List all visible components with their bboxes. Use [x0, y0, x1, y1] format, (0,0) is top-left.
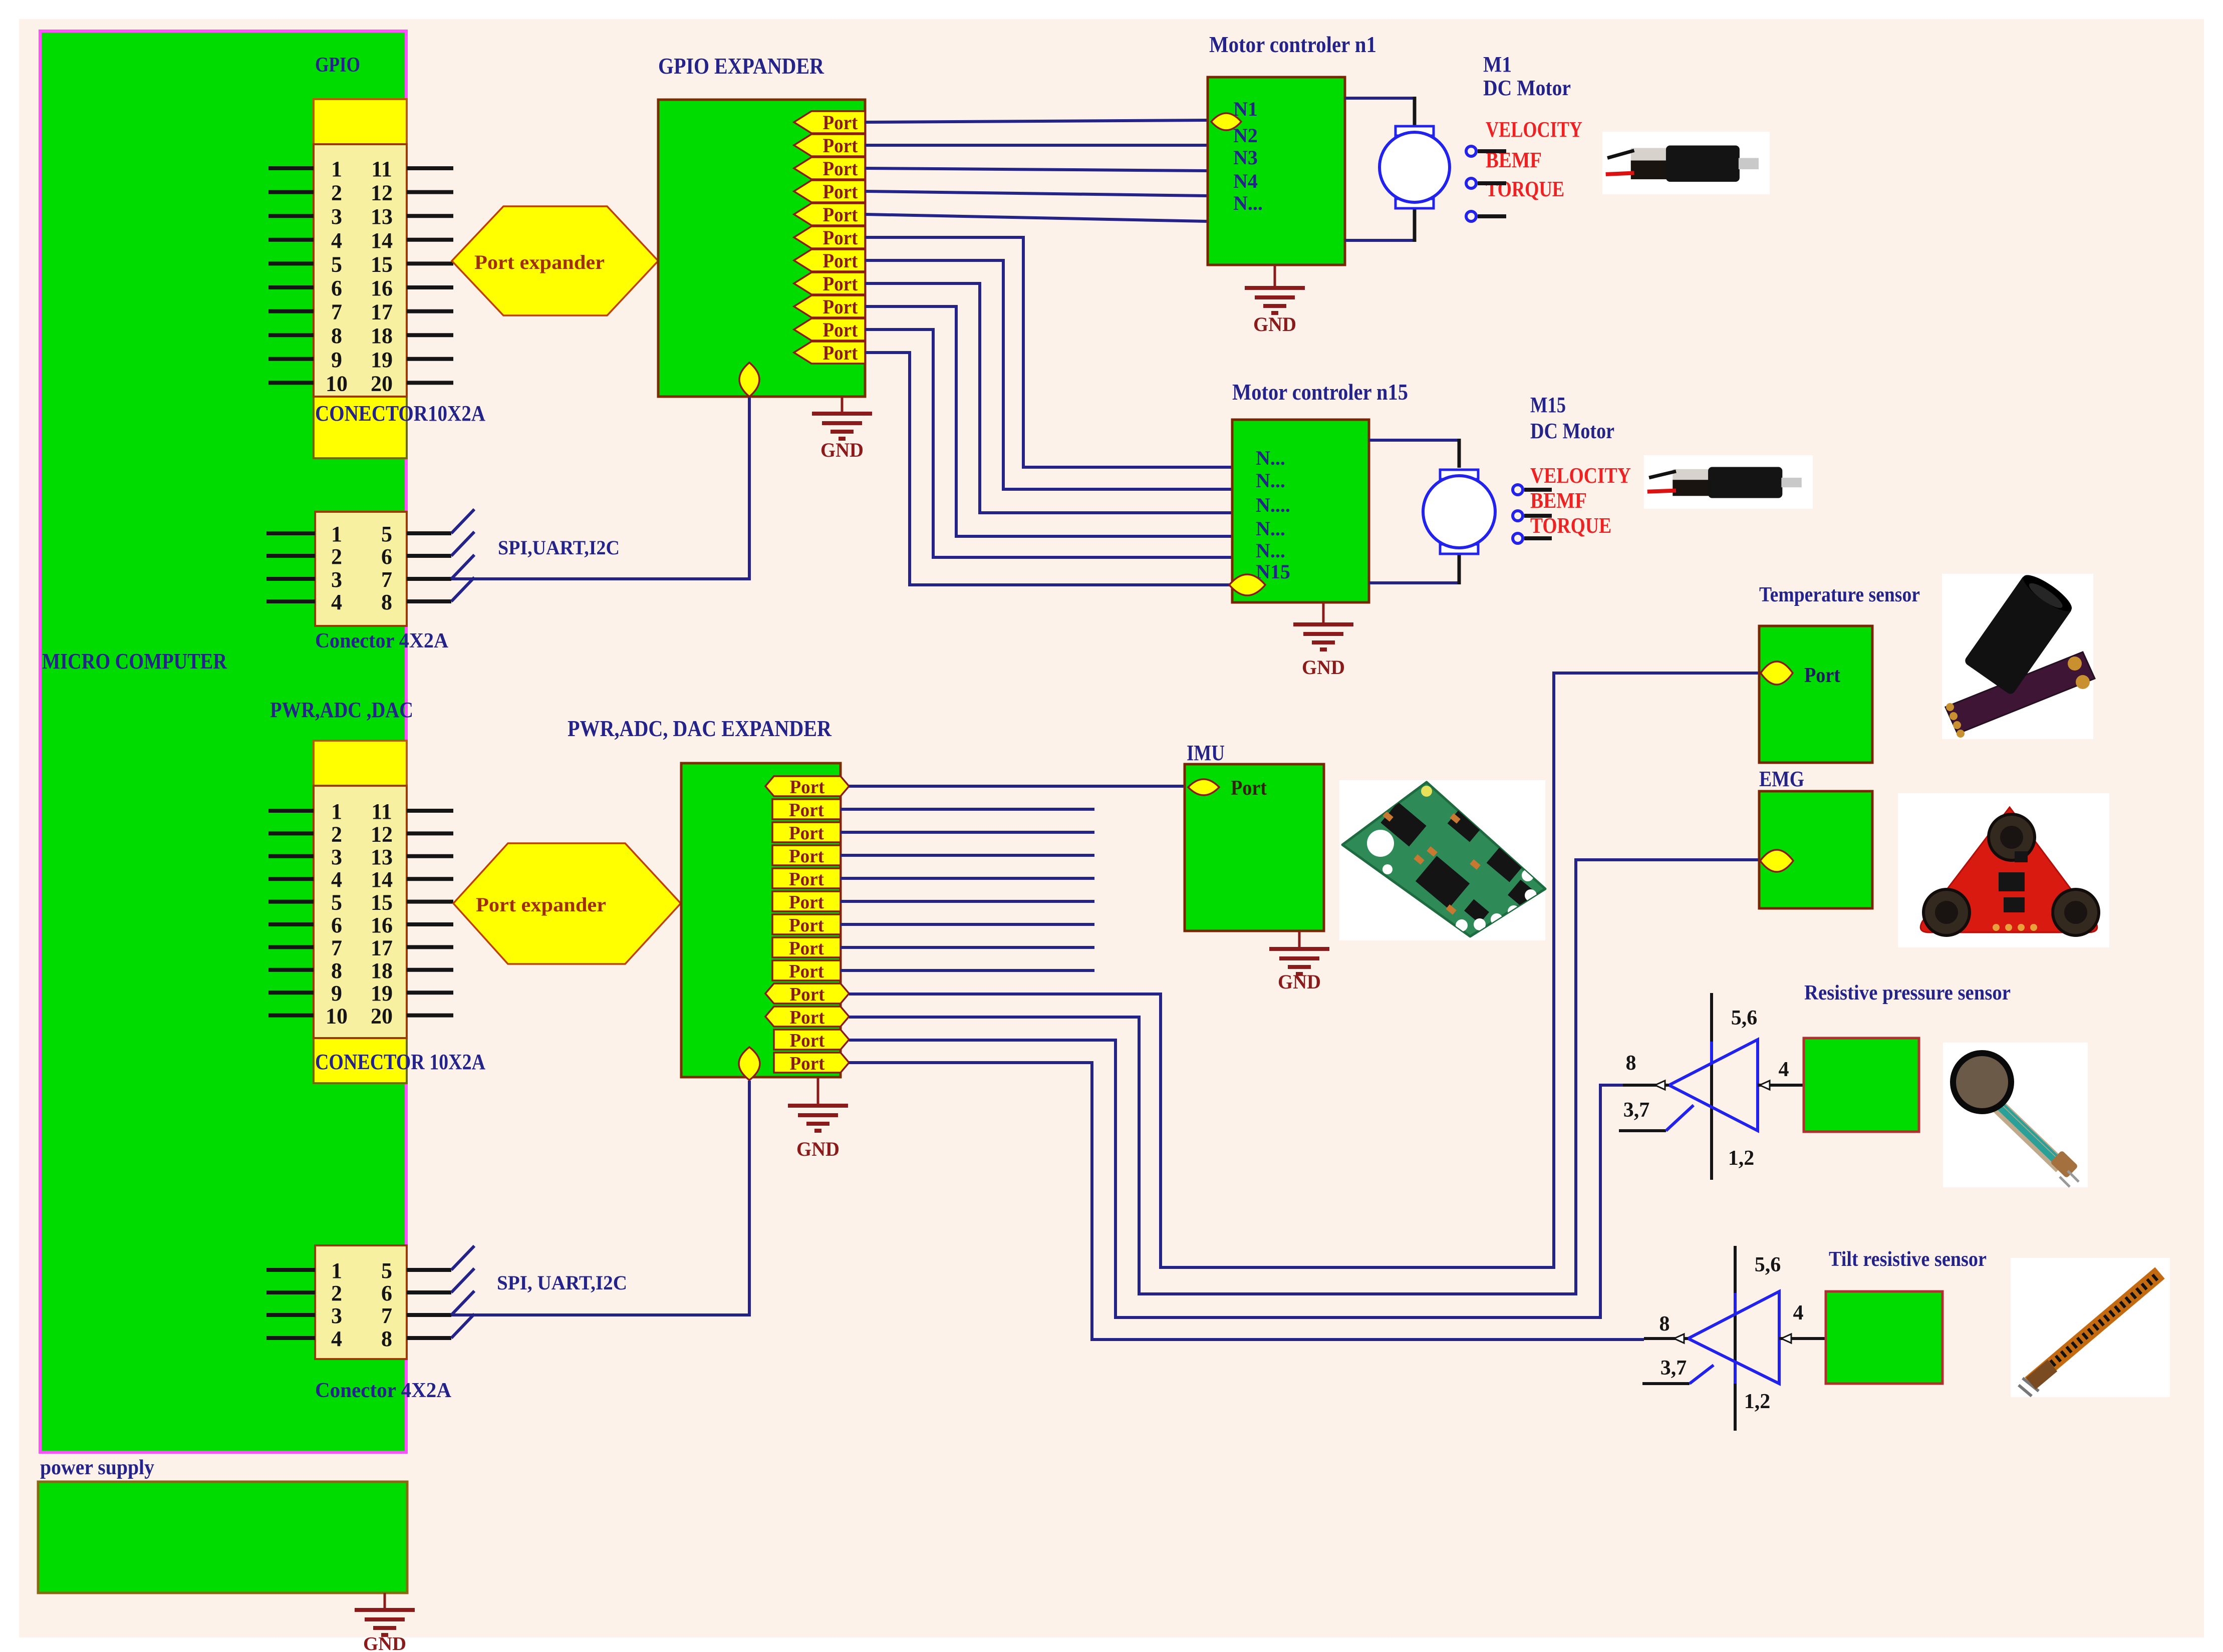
svg-text:1: 1: [331, 799, 342, 824]
svg-text:M15: M15: [1530, 393, 1566, 417]
svg-text:2: 2: [331, 1281, 342, 1305]
svg-text:8: 8: [331, 323, 342, 348]
svg-text:Port: Port: [1231, 777, 1267, 800]
svg-text:Resistive pressure sensor: Resistive pressure sensor: [1804, 981, 2011, 1005]
svg-text:7: 7: [381, 1303, 392, 1328]
svg-text:5,6: 5,6: [1755, 1253, 1781, 1276]
svg-text:Port: Port: [789, 938, 824, 959]
svg-text:N3: N3: [1233, 146, 1258, 169]
svg-text:3: 3: [331, 204, 342, 229]
svg-text:15: 15: [371, 890, 393, 915]
svg-text:Conector 4X2A: Conector 4X2A: [315, 629, 449, 652]
svg-text:1,2: 1,2: [1744, 1390, 1771, 1413]
svg-text:16: 16: [371, 276, 393, 300]
svg-text:N...: N...: [1256, 539, 1285, 562]
svg-text:DC Motor: DC Motor: [1530, 419, 1614, 443]
svg-text:PWR,ADC ,DAC: PWR,ADC ,DAC: [270, 698, 413, 722]
svg-text:PWR,ADC, DAC EXPANDER: PWR,ADC, DAC EXPANDER: [568, 716, 832, 741]
svg-text:13: 13: [371, 845, 393, 869]
svg-text:Tilt resistive sensor: Tilt resistive sensor: [1829, 1248, 1987, 1271]
svg-text:6: 6: [381, 544, 392, 569]
svg-text:4: 4: [331, 1327, 342, 1351]
svg-text:13: 13: [371, 204, 393, 229]
svg-text:10: 10: [326, 371, 348, 396]
svg-text:Port: Port: [823, 295, 859, 318]
svg-text:BEMF: BEMF: [1530, 488, 1587, 513]
svg-text:17: 17: [371, 935, 393, 960]
svg-text:Port: Port: [789, 800, 824, 821]
svg-text:GND: GND: [820, 439, 864, 461]
svg-text:Port: Port: [789, 846, 824, 867]
svg-text:GND: GND: [1302, 656, 1345, 679]
svg-text:N...: N...: [1233, 192, 1263, 214]
svg-text:Motor controler n1: Motor controler n1: [1209, 32, 1376, 57]
svg-text:2: 2: [331, 181, 342, 205]
svg-text:Motor controler n15: Motor controler n15: [1232, 379, 1408, 405]
svg-text:power supply: power supply: [40, 1456, 154, 1479]
svg-text:Port: Port: [823, 157, 859, 180]
svg-text:Port: Port: [823, 226, 859, 249]
svg-text:15: 15: [371, 252, 393, 276]
svg-text:10: 10: [326, 1004, 348, 1029]
svg-text:8: 8: [331, 958, 342, 983]
svg-text:7: 7: [331, 935, 342, 960]
svg-text:GND: GND: [1253, 313, 1296, 336]
svg-text:6: 6: [331, 276, 342, 300]
svg-text:4: 4: [331, 228, 342, 253]
svg-text:2: 2: [331, 822, 342, 846]
svg-text:3,7: 3,7: [1623, 1099, 1650, 1122]
svg-text:Port: Port: [823, 342, 859, 364]
svg-text:7: 7: [381, 567, 392, 592]
svg-text:9: 9: [331, 981, 342, 1006]
svg-text:Port: Port: [823, 203, 859, 226]
svg-text:1: 1: [331, 522, 342, 546]
svg-text:N...: N...: [1256, 447, 1285, 469]
svg-text:Port expander: Port expander: [476, 893, 606, 916]
svg-text:4: 4: [331, 867, 342, 892]
svg-text:Temperature sensor: Temperature sensor: [1759, 583, 1920, 606]
svg-text:Port: Port: [789, 823, 824, 844]
svg-text:Port: Port: [790, 1053, 825, 1074]
svg-text:Port: Port: [1804, 664, 1840, 687]
svg-text:TORQUE: TORQUE: [1486, 177, 1564, 201]
svg-text:11: 11: [371, 799, 392, 824]
svg-text:12: 12: [371, 181, 393, 205]
svg-text:4: 4: [331, 590, 342, 614]
svg-text:Port: Port: [789, 892, 824, 913]
svg-text:GND: GND: [796, 1138, 840, 1160]
svg-text:14: 14: [371, 228, 393, 253]
svg-text:20: 20: [371, 1004, 393, 1029]
svg-text:9: 9: [331, 348, 342, 372]
svg-text:8: 8: [1659, 1312, 1670, 1336]
svg-text:8: 8: [381, 590, 392, 614]
svg-text:N....: N....: [1256, 494, 1290, 516]
svg-text:Port: Port: [789, 915, 824, 936]
svg-text:EMG: EMG: [1759, 767, 1804, 791]
svg-text:Port: Port: [789, 961, 824, 982]
svg-text:5: 5: [381, 1258, 392, 1283]
svg-text:CONECTOR 10X2A: CONECTOR 10X2A: [315, 1050, 485, 1074]
svg-text:Port: Port: [790, 777, 825, 798]
svg-text:N2: N2: [1233, 124, 1258, 147]
svg-text:1: 1: [331, 1258, 342, 1283]
svg-text:GND: GND: [1278, 970, 1321, 993]
svg-text:4: 4: [1793, 1301, 1804, 1325]
svg-text:DC Motor: DC Motor: [1483, 76, 1571, 100]
svg-text:MICRO COMPUTER: MICRO COMPUTER: [42, 649, 227, 674]
svg-text:VELOCITY: VELOCITY: [1530, 463, 1631, 488]
svg-text:Port: Port: [823, 180, 859, 203]
svg-text:6: 6: [331, 913, 342, 937]
svg-text:2: 2: [331, 544, 342, 569]
svg-text:Port: Port: [790, 1030, 825, 1051]
svg-text:20: 20: [371, 371, 393, 396]
svg-text:19: 19: [371, 348, 393, 372]
svg-text:N...: N...: [1256, 469, 1285, 492]
svg-text:Port: Port: [823, 272, 859, 295]
svg-text:SPI,UART,I2C: SPI,UART,I2C: [498, 536, 620, 559]
svg-text:7: 7: [331, 300, 342, 324]
svg-text:4: 4: [1779, 1058, 1789, 1081]
svg-text:IMU: IMU: [1187, 741, 1225, 765]
svg-text:VELOCITY: VELOCITY: [1486, 117, 1582, 142]
svg-text:11: 11: [371, 157, 392, 181]
svg-text:Conector 4X2A: Conector 4X2A: [315, 1379, 452, 1402]
svg-text:Port expander: Port expander: [474, 251, 605, 273]
svg-text:1: 1: [331, 157, 342, 181]
svg-text:Port: Port: [823, 318, 859, 341]
svg-text:N...: N...: [1256, 517, 1285, 540]
svg-text:Port: Port: [790, 1007, 825, 1028]
svg-text:Port: Port: [823, 134, 859, 157]
svg-text:GND: GND: [363, 1633, 406, 1652]
svg-text:19: 19: [371, 981, 393, 1006]
svg-text:CONECTOR10X2A: CONECTOR10X2A: [315, 401, 485, 426]
svg-text:18: 18: [371, 323, 393, 348]
svg-text:5: 5: [331, 252, 342, 276]
svg-text:6: 6: [381, 1281, 392, 1305]
svg-text:5: 5: [331, 890, 342, 915]
svg-text:GPIO: GPIO: [315, 54, 360, 77]
svg-text:3: 3: [331, 845, 342, 869]
svg-text:16: 16: [371, 913, 393, 937]
svg-text:SPI, UART,I2C: SPI, UART,I2C: [497, 1271, 627, 1294]
svg-text:N4: N4: [1233, 170, 1258, 192]
svg-text:8: 8: [1626, 1052, 1636, 1075]
svg-text:5: 5: [381, 522, 392, 546]
svg-text:18: 18: [371, 958, 393, 983]
svg-text:1,2: 1,2: [1728, 1147, 1755, 1170]
svg-text:Port: Port: [789, 869, 824, 890]
svg-text:8: 8: [381, 1327, 392, 1351]
svg-text:14: 14: [371, 867, 393, 892]
svg-text:5,6: 5,6: [1731, 1007, 1758, 1030]
svg-text:Port: Port: [823, 111, 859, 134]
svg-text:M1: M1: [1483, 52, 1512, 77]
svg-text:Port: Port: [790, 984, 825, 1005]
svg-text:3,7: 3,7: [1660, 1357, 1687, 1380]
svg-text:3: 3: [331, 567, 342, 592]
svg-text:GPIO EXPANDER: GPIO EXPANDER: [658, 53, 824, 79]
svg-text:Port: Port: [823, 249, 859, 272]
svg-text:17: 17: [371, 300, 393, 324]
svg-text:3: 3: [331, 1303, 342, 1328]
svg-text:12: 12: [371, 822, 393, 846]
